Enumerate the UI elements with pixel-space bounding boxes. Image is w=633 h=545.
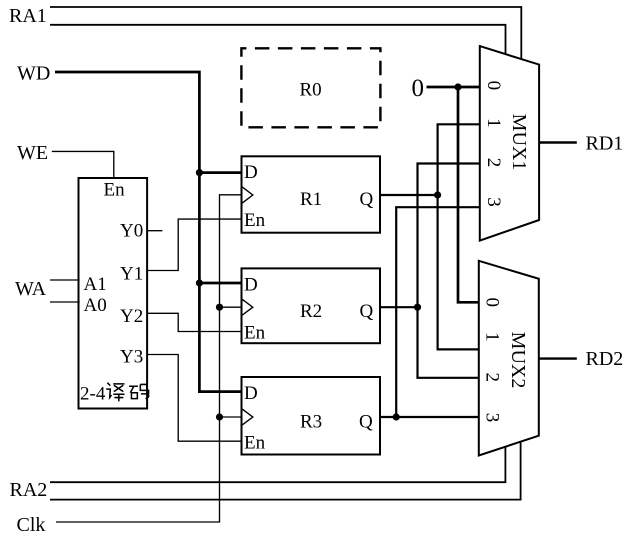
decoder U1 box (2-4 decoder): [79, 178, 148, 409]
svg-text:2-4: 2-4: [80, 384, 106, 405]
register R2 box: [242, 268, 381, 343]
decoder name glyph yi (translate): [106, 383, 124, 402]
svg-text:A0: A0: [84, 295, 107, 316]
register R2 clock triangle: [242, 299, 253, 316]
register R3 box: [242, 377, 381, 455]
svg-text:En: En: [244, 433, 266, 454]
svg-text:R0: R0: [300, 80, 322, 101]
svg-text:En: En: [244, 210, 266, 231]
svg-text:0: 0: [412, 75, 425, 102]
register R1 box: [242, 156, 381, 232]
wire Clk (to register clock inputs): [56, 195, 242, 522]
mux MUX2 body: [479, 261, 539, 456]
junction WD/R2.D: [196, 279, 203, 286]
svg-text:1: 1: [483, 118, 504, 128]
svg-text:Q: Q: [360, 301, 374, 322]
wire RA1 bit1 (to MUX1 select): [50, 7, 521, 59]
wire RA2 bit1 (to MUX2 select): [50, 447, 505, 482]
svg-text:1: 1: [482, 332, 503, 342]
mux MUX1 body: [480, 46, 539, 241]
svg-text:R3: R3: [300, 412, 322, 433]
svg-text:3: 3: [483, 197, 504, 207]
wire R2 Q output: [380, 306, 418, 308]
wire WD stub to R1 D: [199, 171, 241, 174]
svg-text:R2: R2: [300, 301, 322, 322]
register R0 dashed box (constant zero register): [241, 48, 380, 127]
wire R3 Q output to MUX2 input 3: [380, 416, 480, 418]
decoder name glyph ma (code): [129, 384, 148, 399]
wire WA bit0 to decoder A0: [50, 301, 80, 303]
svg-text:0: 0: [482, 297, 503, 307]
junction node R2 Q branch: [414, 304, 421, 311]
svg-text:WD: WD: [17, 63, 50, 85]
svg-text:RA2: RA2: [10, 479, 48, 501]
wire WD data bus (thick): [55, 72, 242, 392]
svg-text:Y3: Y3: [120, 347, 143, 368]
svg-text:Q: Q: [360, 189, 374, 210]
svg-text:WA: WA: [15, 278, 47, 300]
wire R2 Q riser to MUX1 input 2 and MUX2 input 2: [418, 164, 480, 378]
junction node R3 Q branch: [393, 413, 400, 420]
wire R1 Q riser to MUX1 input 1 and MUX2 input 1: [438, 124, 480, 349]
wire WA bit1 to decoder A1: [50, 279, 80, 281]
wire RA2 bit0 (to MUX2 select): [50, 441, 521, 500]
svg-text:MUX1: MUX1: [508, 114, 530, 171]
junction Clk/R2 clock: [216, 304, 223, 311]
wire RD2 output: [539, 357, 577, 359]
svg-text:MUX2: MUX2: [507, 332, 529, 389]
register R1 clock triangle: [242, 187, 253, 204]
svg-text:0: 0: [483, 81, 504, 91]
wire RA1 bit0 (to MUX1 select): [50, 25, 506, 55]
wire RD1 output: [539, 141, 577, 143]
svg-text:2: 2: [482, 372, 503, 382]
svg-text:D: D: [244, 162, 258, 183]
junction Clk/R3 clock: [216, 413, 223, 420]
wire WD stub to R2 D: [199, 282, 241, 285]
wire WE to decoder En: [52, 151, 114, 178]
svg-text:R1: R1: [300, 189, 322, 210]
svg-text:Y2: Y2: [120, 306, 143, 327]
junction WD/R1.D: [196, 169, 203, 176]
wire Y2 to R2 En: [147, 313, 242, 331]
svg-text:En: En: [244, 323, 266, 344]
wire R3 Q riser to MUX1 input 3: [396, 207, 480, 417]
register R3 clock triangle: [242, 409, 253, 426]
svg-text:RD2: RD2: [586, 348, 624, 370]
wire constant 0 to MUX1 input 0 (thick): [427, 86, 480, 89]
wire Clk stub to R2 clock: [220, 306, 242, 308]
svg-text:Y1: Y1: [120, 264, 143, 285]
junction node constant 0 branch: [454, 83, 461, 90]
svg-text:3: 3: [482, 413, 503, 423]
wire constant 0 riser to MUX2 input 0: [458, 87, 479, 302]
svg-text:Clk: Clk: [17, 514, 46, 536]
svg-text:Q: Q: [359, 412, 373, 433]
wire Y1 to R1 En: [147, 219, 242, 270]
svg-text:RA1: RA1: [9, 5, 47, 27]
wire Y0 stub: [147, 230, 162, 232]
wire R1 Q output: [380, 194, 438, 196]
svg-text:2: 2: [483, 158, 504, 168]
svg-text:Y0: Y0: [120, 221, 143, 242]
wire Y3 to R3 En: [147, 355, 242, 442]
junction node R1 Q branch: [434, 191, 441, 198]
wire Clk stub to R3 clock: [220, 416, 242, 418]
svg-text:En: En: [104, 180, 126, 201]
svg-text:A1: A1: [84, 274, 107, 295]
svg-text:RD1: RD1: [586, 133, 624, 155]
svg-text:WE: WE: [17, 142, 48, 164]
svg-text:D: D: [244, 275, 258, 296]
svg-text:D: D: [244, 383, 258, 404]
